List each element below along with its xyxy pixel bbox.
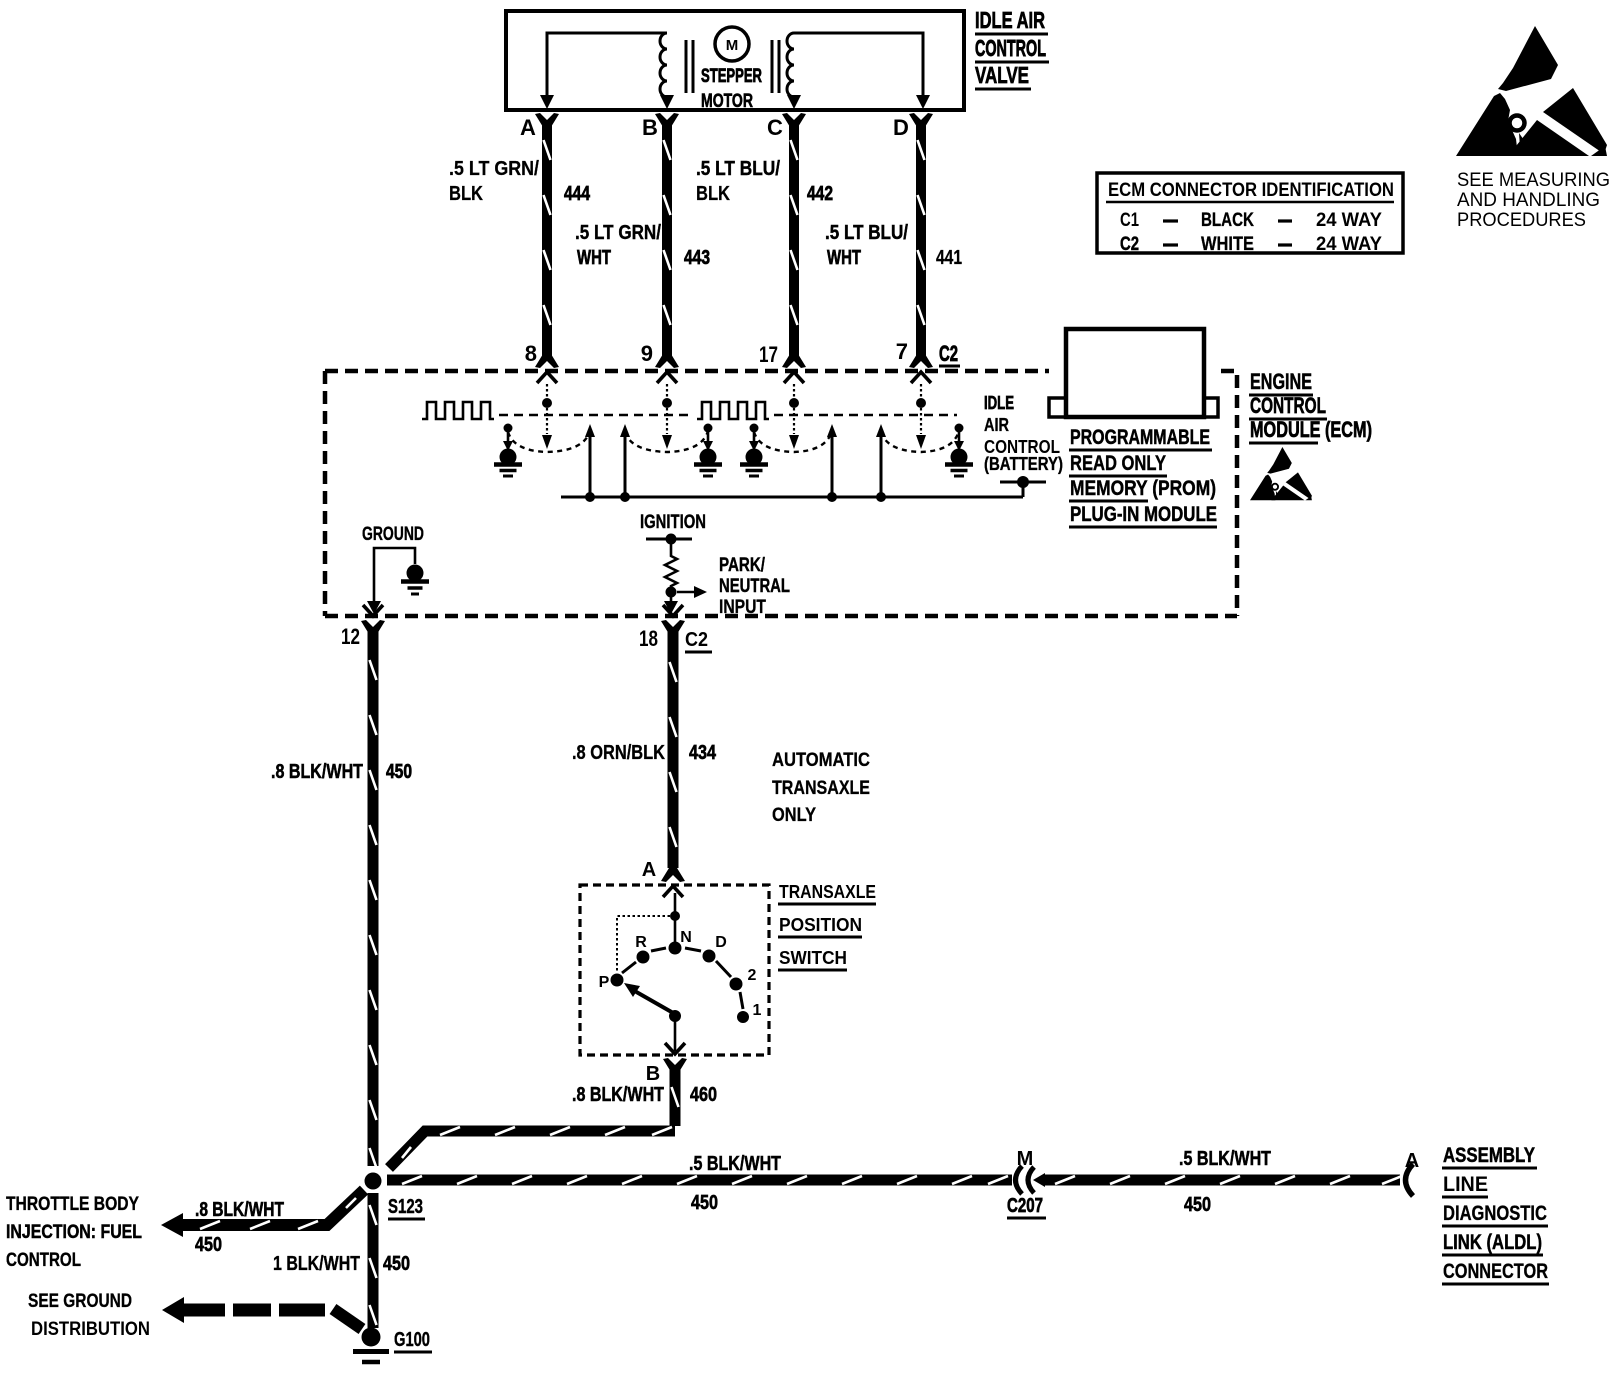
svg-text:ENGINE: ENGINE	[1250, 369, 1312, 394]
svg-text:.5 BLK/WHT: .5 BLK/WHT	[689, 1153, 781, 1175]
svg-text:LINE: LINE	[1443, 1173, 1488, 1196]
svg-text:S123: S123	[388, 1196, 423, 1218]
svg-text:434: 434	[689, 742, 717, 764]
svg-text:7: 7	[896, 339, 908, 364]
svg-text:R: R	[635, 934, 647, 951]
svg-text:IGNITION: IGNITION	[640, 512, 706, 533]
svg-text:A: A	[642, 859, 656, 881]
svg-text:SWITCH: SWITCH	[779, 948, 847, 968]
svg-text:8: 8	[525, 341, 537, 366]
svg-text:444: 444	[564, 183, 591, 205]
svg-text:MOTOR: MOTOR	[701, 91, 753, 112]
svg-text:INPUT: INPUT	[719, 597, 766, 618]
svg-text:.5 LT GRN/: .5 LT GRN/	[449, 158, 539, 180]
svg-text:18: 18	[639, 626, 658, 651]
svg-text:450: 450	[1184, 1194, 1211, 1216]
svg-text:12: 12	[341, 624, 360, 649]
svg-text:442: 442	[807, 183, 833, 205]
svg-text:M: M	[1017, 1148, 1034, 1170]
svg-text:INJECTION: FUEL: INJECTION: FUEL	[6, 1221, 142, 1243]
svg-text:450: 450	[195, 1234, 222, 1256]
svg-text:450: 450	[691, 1192, 718, 1214]
svg-text:PLUG-IN MODULE: PLUG-IN MODULE	[1070, 503, 1217, 526]
svg-text:D: D	[715, 934, 727, 951]
svg-text:PROCEDURES: PROCEDURES	[1457, 210, 1586, 231]
svg-text:NEUTRAL: NEUTRAL	[719, 576, 790, 597]
svg-text:ECM CONNECTOR IDENTIFICATION: ECM CONNECTOR IDENTIFICATION	[1108, 180, 1394, 201]
svg-text:WHT: WHT	[827, 247, 861, 269]
svg-text:.5 LT BLU/: .5 LT BLU/	[825, 222, 908, 244]
svg-text:BLK: BLK	[449, 183, 483, 205]
svg-text:AIR: AIR	[984, 415, 1009, 435]
svg-text:TRANSAXLE: TRANSAXLE	[772, 777, 870, 799]
svg-text:C2: C2	[939, 341, 958, 366]
svg-text:PARK/: PARK/	[719, 555, 766, 576]
svg-text:READ ONLY: READ ONLY	[1070, 452, 1166, 475]
svg-text:THROTTLE BODY: THROTTLE BODY	[6, 1193, 139, 1215]
svg-text:IDLE AIR: IDLE AIR	[975, 7, 1045, 33]
svg-text:SEE GROUND: SEE GROUND	[28, 1290, 132, 1312]
svg-text:B: B	[646, 1063, 660, 1085]
svg-text:SEE MEASURING: SEE MEASURING	[1457, 170, 1610, 191]
svg-text:24 WAY: 24 WAY	[1316, 210, 1382, 231]
svg-text:1 BLK/WHT: 1 BLK/WHT	[273, 1253, 360, 1275]
svg-text:17: 17	[759, 342, 778, 367]
svg-text:ASSEMBLY: ASSEMBLY	[1443, 1144, 1535, 1167]
svg-text:.8 BLK/WHT: .8 BLK/WHT	[572, 1084, 664, 1106]
svg-text:M: M	[726, 37, 739, 54]
svg-text:2: 2	[748, 967, 757, 984]
svg-text:(BATTERY): (BATTERY)	[984, 454, 1063, 474]
svg-text:CONTROL: CONTROL	[975, 35, 1046, 61]
svg-text:.8 ORN/BLK: .8 ORN/BLK	[572, 742, 665, 764]
svg-text:DIAGNOSTIC: DIAGNOSTIC	[1443, 1202, 1547, 1225]
svg-text:POSITION: POSITION	[779, 915, 862, 935]
svg-text:GROUND: GROUND	[362, 524, 424, 545]
svg-text:CONTROL: CONTROL	[1250, 393, 1326, 418]
svg-text:.8 BLK/WHT: .8 BLK/WHT	[271, 761, 363, 783]
svg-text:1: 1	[753, 1002, 762, 1019]
svg-text:.8 BLK/WHT: .8 BLK/WHT	[195, 1199, 284, 1221]
svg-text:.5 LT GRN/: .5 LT GRN/	[575, 222, 661, 244]
svg-text:.5 BLK/WHT: .5 BLK/WHT	[1179, 1148, 1271, 1170]
svg-text:C1: C1	[1120, 210, 1139, 231]
svg-text:WHITE: WHITE	[1201, 234, 1254, 255]
svg-text:C2: C2	[1120, 234, 1139, 255]
svg-text:N: N	[680, 929, 692, 946]
svg-text:BLK: BLK	[696, 183, 730, 205]
svg-text:MEMORY (PROM): MEMORY (PROM)	[1070, 477, 1216, 500]
svg-text:TRANSAXLE: TRANSAXLE	[779, 882, 876, 902]
svg-text:441: 441	[936, 247, 962, 269]
svg-text:AND HANDLING: AND HANDLING	[1457, 190, 1600, 211]
svg-text:A: A	[1405, 1150, 1419, 1172]
svg-text:D: D	[893, 115, 909, 140]
svg-text:460: 460	[690, 1084, 717, 1106]
svg-text:LINK (ALDL): LINK (ALDL)	[1443, 1231, 1542, 1254]
svg-text:DISTRIBUTION: DISTRIBUTION	[31, 1318, 150, 1340]
svg-text:WHT: WHT	[577, 247, 611, 269]
svg-text:STEPPER: STEPPER	[701, 66, 762, 87]
svg-text:24 WAY: 24 WAY	[1316, 234, 1382, 255]
svg-text:G100: G100	[394, 1329, 430, 1351]
svg-text:C207: C207	[1007, 1195, 1043, 1217]
svg-text:9: 9	[641, 341, 653, 366]
svg-text:P: P	[599, 974, 610, 991]
svg-text:CONTROL: CONTROL	[6, 1249, 81, 1271]
svg-text:MODULE (ECM): MODULE (ECM)	[1250, 417, 1372, 442]
svg-text:PROGRAMMABLE: PROGRAMMABLE	[1070, 426, 1210, 449]
svg-text:450: 450	[386, 761, 412, 783]
svg-text:B: B	[642, 115, 658, 140]
svg-text:443: 443	[684, 247, 710, 269]
svg-text:VALVE: VALVE	[975, 62, 1029, 88]
svg-text:A: A	[520, 115, 536, 140]
svg-text:C2: C2	[685, 629, 708, 651]
svg-text:CONNECTOR: CONNECTOR	[1443, 1260, 1548, 1283]
svg-text:AUTOMATIC: AUTOMATIC	[772, 749, 870, 771]
svg-text:ONLY: ONLY	[772, 804, 816, 826]
svg-text:450: 450	[383, 1253, 410, 1275]
svg-text:C: C	[767, 115, 783, 140]
svg-text:BLACK: BLACK	[1201, 210, 1254, 231]
svg-text:IDLE: IDLE	[984, 393, 1014, 413]
svg-text:.5 LT BLU/: .5 LT BLU/	[696, 158, 780, 180]
